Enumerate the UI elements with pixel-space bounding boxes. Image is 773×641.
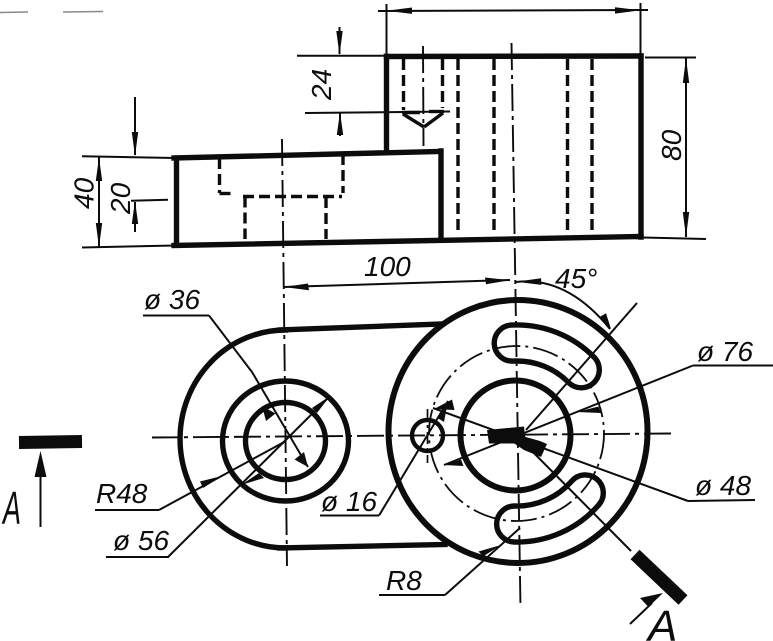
- cylinder outline (front view): [387, 56, 642, 237]
- svg-text:20: 20: [105, 182, 136, 215]
- dimension 45deg arc: [516, 263, 611, 329]
- plate top edge: [174, 152, 438, 159]
- svg-text:A: A: [1, 482, 21, 534]
- 45 degree construction line: [526, 303, 637, 430]
- plate right edge: [438, 151, 443, 237]
- svg-text:40: 40: [69, 177, 100, 209]
- section mark A right: [630, 555, 683, 641]
- label o36 with leader: [143, 284, 308, 467]
- label o16 with leader: [320, 401, 448, 517]
- dimension 20: [105, 97, 168, 232]
- svg-text:45°: 45°: [555, 263, 597, 294]
- plate outline (front view): [174, 151, 641, 246]
- svg-text:ø 36: ø 36: [144, 284, 200, 315]
- dimension 40: [69, 156, 176, 247]
- label o76 with leader: [444, 336, 773, 466]
- hidden lines: counterbore in plate: [220, 154, 344, 239]
- central hole o48: [461, 381, 571, 491]
- cylinder left edge: [384, 57, 389, 153]
- label o56 with leader: [106, 396, 330, 557]
- section cutting line 45 down-right: [517, 436, 631, 551]
- base bottom edge: [174, 237, 641, 246]
- small hole vertical centerline: [427, 409, 429, 463]
- horizontal centerline: [152, 434, 672, 438]
- plate top edge (plan): [280, 324, 440, 330]
- svg-text:ø 16: ø 16: [321, 486, 377, 517]
- svg-text:ø 56: ø 56: [113, 525, 169, 556]
- plate bottom edge (plan): [280, 545, 445, 549]
- hidden lines: slots silhouette: [494, 59, 592, 235]
- hidden lines: drilled hole o16 in cylinder: [402, 59, 444, 127]
- label o48 with leader: [433, 400, 755, 502]
- plate left end cap R48: [180, 330, 285, 548]
- svg-text:R8: R8: [386, 565, 422, 596]
- label R8 with leader: [379, 528, 520, 596]
- top slot: [494, 325, 599, 388]
- dimension 24: [297, 27, 450, 136]
- svg-text:A: A: [645, 602, 677, 641]
- bottom slot: [497, 475, 604, 542]
- label R48 with leader: [95, 441, 286, 510]
- centerline cylinder axis (runs into plan view): [512, 43, 521, 608]
- svg-text:100: 100: [364, 251, 411, 282]
- cylinder top edge: [387, 53, 642, 59]
- small hole o16: [412, 420, 443, 451]
- boss circle o56: [223, 381, 349, 501]
- svg-text:ø 76: ø 76: [697, 336, 753, 367]
- svg-text:R48: R48: [96, 478, 148, 509]
- big filled arrow wedges near centre: [487, 427, 526, 444]
- plate left edge: [174, 159, 179, 246]
- big cylinder circle: [389, 300, 648, 563]
- cylinder right edge: [638, 56, 643, 237]
- centerline small hole axis: [422, 46, 425, 146]
- dimension 100: [284, 251, 511, 290]
- hidden lines: central hole o48: [458, 59, 568, 235]
- section mark A left: [1, 442, 82, 535]
- svg-text:24: 24: [306, 69, 337, 101]
- hole circle o36: [246, 403, 326, 480]
- svg-text:ø 48: ø 48: [695, 470, 751, 501]
- top width dimension: [378, 3, 648, 54]
- dimension 80: [643, 58, 706, 240]
- centerline left boss axis (runs into plan view): [282, 139, 287, 566]
- svg-text:80: 80: [656, 129, 687, 161]
- stray scan marks top-left: [0, 12, 103, 13]
- bolt circle o76 (dash-dot): [429, 346, 604, 521]
